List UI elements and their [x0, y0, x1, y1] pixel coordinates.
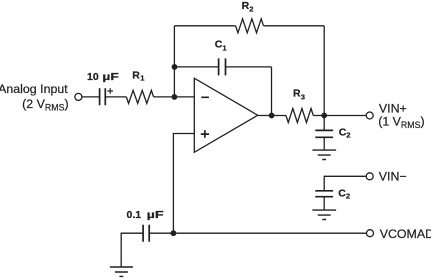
svg-text:µF: µF: [102, 71, 119, 83]
svg-text:R: R: [132, 69, 140, 81]
svg-text:VCOMAD: VCOMAD: [380, 227, 431, 241]
svg-text:2: 2: [249, 4, 253, 13]
svg-text:3: 3: [301, 93, 305, 102]
svg-text:0.1: 0.1: [127, 209, 142, 221]
svg-text:2: 2: [346, 131, 350, 140]
svg-text:2: 2: [346, 192, 350, 201]
svg-text:Analog Input: Analog Input: [0, 82, 68, 96]
svg-text:VIN−: VIN−: [379, 170, 407, 184]
svg-text:µF: µF: [147, 209, 165, 221]
svg-text:10: 10: [87, 71, 99, 83]
